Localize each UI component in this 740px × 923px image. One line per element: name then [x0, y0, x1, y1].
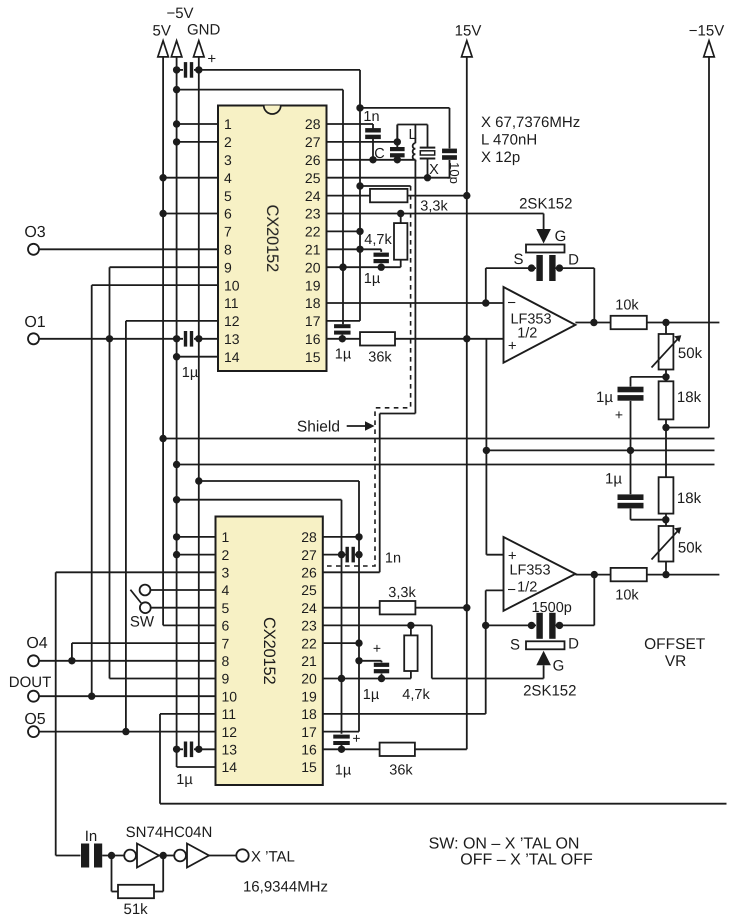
- svg-text:16: 16: [301, 742, 317, 758]
- svg-text:L 470nH: L 470nH: [481, 132, 537, 149]
- svg-text:−: −: [507, 582, 516, 599]
- svg-text:+: +: [615, 407, 623, 423]
- svg-text:D: D: [568, 636, 579, 653]
- svg-text:10: 10: [222, 688, 238, 704]
- svg-text:1µ: 1µ: [605, 471, 622, 488]
- svg-text:1µ: 1µ: [363, 687, 380, 703]
- svg-text:26: 26: [305, 152, 321, 168]
- svg-text:27: 27: [301, 547, 317, 563]
- svg-text:18: 18: [301, 706, 317, 722]
- svg-text:15V: 15V: [455, 22, 482, 39]
- svg-text:S: S: [513, 251, 523, 268]
- svg-text:14: 14: [222, 759, 238, 775]
- svg-text:8: 8: [224, 242, 232, 258]
- svg-text:1n: 1n: [385, 551, 401, 567]
- svg-text:O1: O1: [24, 314, 45, 331]
- svg-text:19: 19: [301, 688, 317, 704]
- svg-text:SN74HC04N: SN74HC04N: [126, 824, 213, 841]
- svg-text:1µ: 1µ: [176, 772, 193, 788]
- svg-text:S: S: [510, 637, 520, 654]
- svg-text:24: 24: [305, 188, 321, 204]
- svg-text:9: 9: [222, 671, 230, 687]
- svg-text:2: 2: [222, 547, 230, 563]
- svg-text:4: 4: [224, 170, 232, 186]
- svg-text:5: 5: [224, 188, 232, 204]
- svg-text:1n: 1n: [363, 109, 379, 125]
- svg-text:C: C: [374, 146, 384, 162]
- svg-text:1/2: 1/2: [517, 580, 537, 596]
- svg-text:16: 16: [305, 331, 321, 347]
- svg-text:6: 6: [222, 618, 230, 634]
- svg-text:18k: 18k: [677, 389, 702, 406]
- svg-text:O3: O3: [24, 224, 45, 241]
- svg-text:16,9344MHz: 16,9344MHz: [243, 879, 328, 896]
- svg-text:17: 17: [305, 313, 321, 329]
- svg-text:25: 25: [301, 582, 317, 598]
- svg-text:12: 12: [222, 724, 238, 740]
- svg-text:−5V: −5V: [166, 5, 193, 22]
- svg-text:2SK152: 2SK152: [523, 683, 576, 700]
- svg-text:7: 7: [222, 635, 230, 651]
- svg-text:Shield: Shield: [297, 419, 340, 436]
- svg-text:4,7k: 4,7k: [402, 687, 430, 703]
- svg-text:LF353: LF353: [509, 563, 550, 579]
- svg-text:OFF – X ’TAL OFF: OFF – X ’TAL OFF: [460, 852, 593, 869]
- svg-text:19: 19: [305, 277, 321, 293]
- svg-text:7: 7: [224, 224, 232, 240]
- svg-text:3,3k: 3,3k: [388, 585, 416, 601]
- svg-text:1500p: 1500p: [532, 600, 572, 616]
- svg-text:−15V: −15V: [689, 22, 724, 39]
- svg-text:X 12p: X 12p: [481, 149, 520, 166]
- svg-text:2: 2: [224, 134, 232, 150]
- svg-text:OFFSET: OFFSET: [644, 636, 706, 653]
- svg-text:+: +: [207, 51, 216, 68]
- svg-text:18: 18: [305, 295, 321, 311]
- svg-text:D: D: [568, 252, 579, 269]
- svg-text:O4: O4: [26, 635, 47, 652]
- svg-text:15: 15: [301, 759, 317, 775]
- svg-text:20: 20: [305, 259, 321, 275]
- svg-text:1µ: 1µ: [182, 365, 199, 381]
- svg-text:1µ: 1µ: [596, 389, 613, 406]
- svg-text:13: 13: [224, 331, 240, 347]
- svg-text:28: 28: [301, 529, 317, 545]
- svg-text:1µ: 1µ: [364, 271, 381, 287]
- svg-text:22: 22: [301, 635, 317, 651]
- svg-text:3: 3: [222, 565, 230, 581]
- svg-text:23: 23: [305, 206, 321, 222]
- svg-text:1: 1: [224, 116, 232, 132]
- svg-text:1µ: 1µ: [335, 347, 352, 363]
- svg-text:17: 17: [301, 724, 317, 740]
- svg-text:2SK152: 2SK152: [519, 196, 572, 213]
- svg-text:24: 24: [301, 600, 317, 616]
- svg-text:CX20152: CX20152: [263, 205, 281, 272]
- svg-text:1/2: 1/2: [517, 326, 537, 342]
- svg-text:+: +: [352, 730, 360, 746]
- svg-text:5V: 5V: [153, 22, 171, 39]
- svg-text:25: 25: [305, 170, 321, 186]
- svg-text:DOUT: DOUT: [9, 674, 52, 691]
- svg-text:6: 6: [224, 206, 232, 222]
- svg-text:50k: 50k: [678, 345, 703, 362]
- svg-text:36k: 36k: [389, 763, 413, 779]
- svg-text:9: 9: [224, 259, 232, 275]
- svg-text:36k: 36k: [368, 350, 392, 366]
- svg-text:X ’TAL: X ’TAL: [251, 849, 295, 866]
- svg-text:23: 23: [301, 618, 317, 634]
- svg-text:20: 20: [301, 671, 317, 687]
- svg-text:12: 12: [224, 313, 240, 329]
- svg-text:SW: ON – X ’TAL ON: SW: ON – X ’TAL ON: [429, 836, 580, 853]
- svg-text:51k: 51k: [124, 901, 149, 918]
- svg-text:4,7k: 4,7k: [364, 232, 392, 248]
- svg-text:+: +: [508, 338, 517, 355]
- svg-text:28: 28: [305, 116, 321, 132]
- svg-text:+: +: [373, 640, 381, 656]
- svg-text:1µ: 1µ: [335, 763, 352, 779]
- svg-text:G: G: [555, 228, 567, 245]
- svg-text:In: In: [85, 828, 98, 845]
- svg-text:4: 4: [222, 582, 230, 598]
- svg-text:14: 14: [224, 349, 240, 365]
- svg-text:SW: SW: [130, 614, 155, 631]
- svg-text:13: 13: [222, 742, 238, 758]
- svg-text:X: X: [429, 162, 439, 178]
- svg-text:X 67,7376MHz: X 67,7376MHz: [481, 114, 580, 131]
- svg-text:3: 3: [224, 152, 232, 168]
- svg-text:27: 27: [305, 134, 321, 150]
- svg-text:O5: O5: [24, 711, 45, 728]
- svg-text:50k: 50k: [678, 540, 703, 557]
- svg-text:11: 11: [222, 706, 237, 722]
- svg-text:21: 21: [305, 242, 321, 258]
- svg-text:22: 22: [305, 224, 321, 240]
- svg-text:8: 8: [222, 653, 230, 669]
- svg-text:10: 10: [224, 277, 240, 293]
- svg-text:−: −: [507, 295, 516, 312]
- svg-text:3,3k: 3,3k: [420, 199, 448, 215]
- svg-text:G: G: [553, 658, 565, 675]
- svg-text:L: L: [408, 127, 416, 143]
- svg-text:21: 21: [301, 653, 317, 669]
- svg-text:5: 5: [222, 600, 230, 616]
- svg-text:10k: 10k: [615, 298, 639, 314]
- svg-text:18k: 18k: [677, 490, 702, 507]
- svg-text:CX20152: CX20152: [260, 617, 278, 684]
- svg-text:11: 11: [224, 295, 239, 311]
- svg-text:15: 15: [305, 349, 321, 365]
- svg-text:GND: GND: [187, 22, 221, 39]
- svg-text:VR: VR: [665, 653, 687, 670]
- svg-text:10k: 10k: [615, 588, 639, 604]
- svg-text:26: 26: [301, 565, 317, 581]
- svg-text:1: 1: [222, 529, 230, 545]
